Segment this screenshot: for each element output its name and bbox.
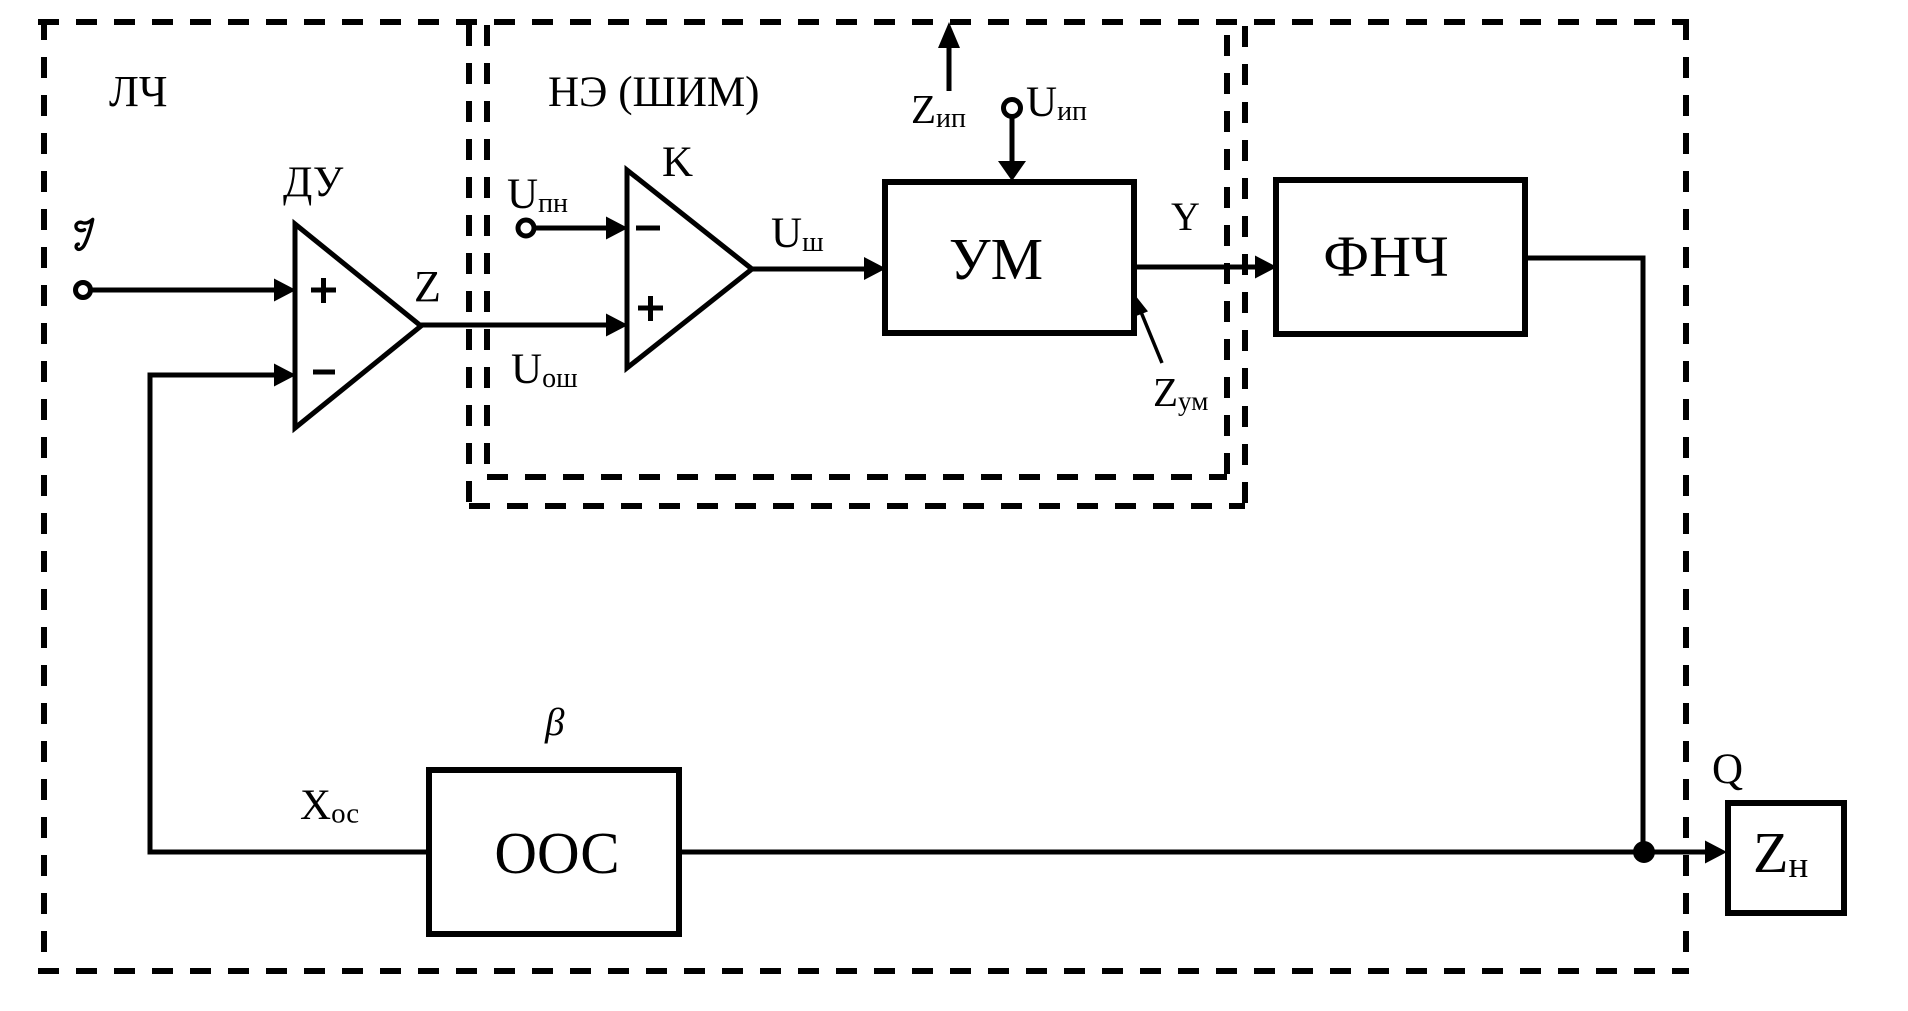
svg-text:ФНЧ: ФНЧ <box>1323 224 1448 289</box>
svg-text:K: K <box>662 139 693 186</box>
svg-text:Q: Q <box>1712 746 1743 793</box>
svg-text:Y: Y <box>1171 194 1200 239</box>
svg-text:ЛЧ: ЛЧ <box>109 67 167 116</box>
svg-text:УМ: УМ <box>949 226 1043 292</box>
svg-text:β: β <box>544 701 565 744</box>
svg-text:ООС: ООС <box>494 820 619 886</box>
svg-text:Z: Z <box>414 262 441 311</box>
svg-text:ДУ: ДУ <box>283 159 344 206</box>
svg-text:НЭ (ШИМ): НЭ (ШИМ) <box>548 69 760 116</box>
